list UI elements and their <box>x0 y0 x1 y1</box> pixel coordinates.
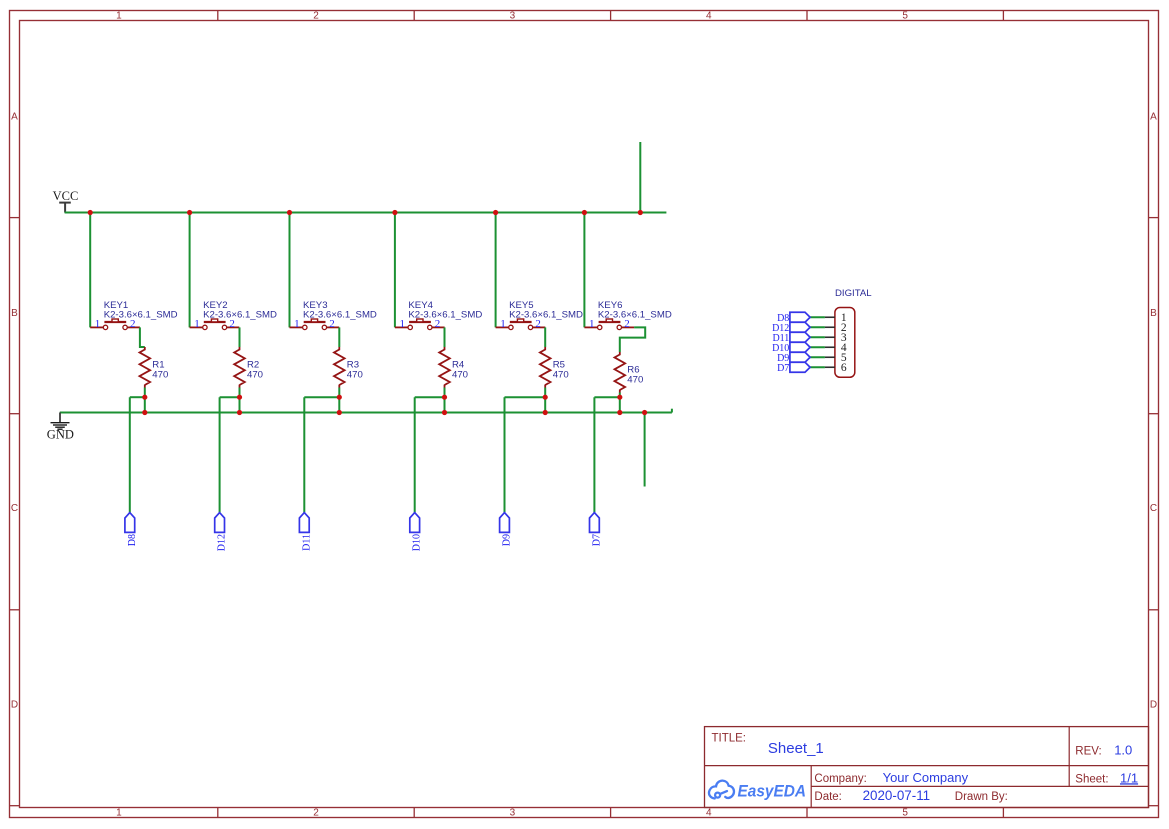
wire branch to flag D9 <box>505 396 546 398</box>
wire to connector pin 5 <box>810 356 825 358</box>
wire to connector pin 2 <box>810 326 825 328</box>
connector pin 1 stub <box>825 316 835 318</box>
wire R4 to GND rail <box>444 388 446 413</box>
connector DIGITAL body <box>835 308 855 378</box>
svg-text:DIGITAL: DIGITAL <box>835 288 872 299</box>
pushbutton KEY2 <box>190 319 240 330</box>
svg-text:C: C <box>1150 503 1157 514</box>
title block divider logo cell <box>810 766 812 808</box>
junction dot node D11 <box>337 395 342 400</box>
net flag D8 bottom <box>125 513 138 547</box>
svg-text:470: 470 <box>247 370 263 381</box>
wire VCC to KEY2 pin 1 <box>189 213 191 328</box>
net flag D10 right <box>772 342 810 354</box>
frame column tick bottom 5 <box>1002 808 1004 818</box>
svg-text:GND: GND <box>47 427 74 441</box>
frame column tick bottom 1 <box>217 808 219 818</box>
resistor R2 <box>234 347 245 388</box>
junction dot node D10 <box>442 395 447 400</box>
junction dot VCC rail col 5 <box>493 210 498 215</box>
net flag D9 right <box>777 352 810 364</box>
pushbutton KEY6 <box>584 319 634 330</box>
wire GND rail horizontal <box>60 412 672 414</box>
resistor R6 <box>615 352 626 393</box>
wire down to flag D11 <box>303 397 305 513</box>
VCC power symbol <box>59 203 71 213</box>
wire KEY1 pin2 down <box>140 327 145 347</box>
wire to connector pin 1 <box>810 316 825 318</box>
net flag D11 bottom <box>299 513 312 551</box>
svg-text:1: 1 <box>589 318 595 330</box>
pushbutton KEY3 <box>290 319 340 330</box>
junction dot node D8 <box>142 395 147 400</box>
svg-text:D12: D12 <box>217 534 228 551</box>
svg-text:TITLE:: TITLE: <box>712 733 747 745</box>
svg-text:K2-3.6×6.1_SMD: K2-3.6×6.1_SMD <box>598 310 672 321</box>
EasyEDA logo cloud <box>709 781 734 799</box>
wire R3 to GND rail <box>338 388 340 413</box>
svg-text:A: A <box>1150 111 1157 122</box>
connector pin 6 stub <box>825 366 835 368</box>
junction dot GND rail col 2 <box>237 410 242 415</box>
wire R2 to GND rail <box>239 388 241 413</box>
ground symbol GND <box>51 413 70 430</box>
svg-text:EasyEDA: EasyEDA <box>738 782 807 801</box>
svg-text:4: 4 <box>706 808 712 819</box>
svg-text:K2-3.6×6.1_SMD: K2-3.6×6.1_SMD <box>303 310 377 321</box>
wire down to flag D10 <box>414 397 416 513</box>
svg-text:K2-3.6×6.1_SMD: K2-3.6×6.1_SMD <box>509 310 583 321</box>
svg-text:D: D <box>11 700 18 711</box>
wire down to flag D12 <box>219 397 221 513</box>
svg-text:D: D <box>1150 700 1157 711</box>
net flag D10 bottom <box>410 513 423 552</box>
frame column tick bottom 3 <box>610 808 612 818</box>
svg-text:470: 470 <box>627 375 643 386</box>
svg-text:1: 1 <box>95 318 101 330</box>
svg-text:1: 1 <box>116 11 122 22</box>
svg-text:1: 1 <box>400 318 406 330</box>
wire VCC rail horizontal <box>65 212 667 214</box>
junction dot GND rail col 3 <box>337 410 342 415</box>
net flag D12 right <box>772 322 810 334</box>
junction dot GND rail col 6 <box>617 410 622 415</box>
svg-text:B: B <box>11 308 18 319</box>
frame column tick top 4 <box>806 11 808 21</box>
resistor R3 <box>334 347 345 388</box>
junction dot VCC rail col 1 <box>88 210 93 215</box>
wire branch to flag D8 <box>130 396 145 398</box>
svg-text:470: 470 <box>452 370 468 381</box>
frame column tick top 1 <box>217 11 219 21</box>
frame row tick right 2 <box>1149 413 1159 415</box>
svg-text:470: 470 <box>152 370 168 381</box>
title block divider rev/sheet <box>1068 727 1070 787</box>
svg-text:6: 6 <box>841 362 847 374</box>
wire branch to flag D12 <box>220 396 240 398</box>
svg-text:Sheet_1: Sheet_1 <box>768 740 824 757</box>
junction dot VCC rail col 2 <box>187 210 192 215</box>
svg-text:1: 1 <box>294 318 300 330</box>
frame column tick top 3 <box>610 11 612 21</box>
svg-text:VCC: VCC <box>53 189 79 203</box>
svg-text:2: 2 <box>313 11 319 22</box>
wire branch to flag D10 <box>415 396 445 398</box>
svg-text:D10: D10 <box>412 534 423 551</box>
frame row tick left 1 <box>10 217 20 219</box>
wire KEY6 pin2 detour <box>620 327 645 352</box>
frame column tick top 5 <box>1002 11 1004 21</box>
frame row tick left 2 <box>10 413 20 415</box>
svg-text:1/1: 1/1 <box>1120 770 1138 785</box>
junction dot VCC rail col 4 <box>392 210 397 215</box>
wire to connector pin 6 <box>810 366 825 368</box>
wire KEY2 pin2 down <box>239 327 241 347</box>
svg-text:C: C <box>11 503 18 514</box>
wire branch to flag D11 <box>304 396 339 398</box>
svg-text:D8: D8 <box>127 534 138 546</box>
svg-text:Drawn By:: Drawn By: <box>955 791 1008 803</box>
svg-text:1: 1 <box>116 808 122 819</box>
wire down to flag D7 <box>593 397 595 513</box>
wire KEY5 pin2 down <box>544 327 546 347</box>
wire KEY3 pin2 down <box>338 327 340 347</box>
frame row tick right 3 <box>1149 609 1159 611</box>
wire to connector pin 4 <box>810 346 825 348</box>
junction dot VCC rail col 3 <box>287 210 292 215</box>
wire VCC to KEY5 pin 1 <box>495 213 497 328</box>
frame row tick left 4 <box>10 805 20 807</box>
svg-text:D9: D9 <box>502 534 513 546</box>
svg-text:D11: D11 <box>301 534 312 551</box>
junction dot VCC rail right <box>638 210 643 215</box>
wire VCC to KEY4 pin 1 <box>394 213 396 328</box>
wire down to flag D8 <box>129 397 131 513</box>
junction dot GND rail col 5 <box>543 410 548 415</box>
net flag D12 bottom <box>215 513 228 552</box>
svg-text:Company:: Company: <box>814 773 866 785</box>
connector pin 5 stub <box>825 356 835 358</box>
frame column tick bottom 2 <box>413 808 415 818</box>
wire R1 to GND rail <box>144 388 146 413</box>
svg-text:5: 5 <box>902 808 908 819</box>
svg-text:2: 2 <box>313 808 319 819</box>
svg-text:1: 1 <box>500 318 506 330</box>
svg-text:K2-3.6×6.1_SMD: K2-3.6×6.1_SMD <box>408 310 482 321</box>
junction dot VCC rail col 6 <box>582 210 587 215</box>
junction dot GND rail col 4 <box>442 410 447 415</box>
frame column tick bottom 4 <box>806 808 808 818</box>
wire vertical stub above VCC rail <box>639 142 641 213</box>
pushbutton KEY1 <box>90 319 140 330</box>
connector pin 4 stub <box>825 346 835 348</box>
wire VCC to KEY3 pin 1 <box>289 213 291 328</box>
junction dot node D7 <box>617 395 622 400</box>
frame row tick right 1 <box>1149 217 1159 219</box>
svg-text:4: 4 <box>706 11 712 22</box>
pushbutton KEY5 <box>496 319 546 330</box>
net flag D7 right <box>777 362 810 374</box>
svg-text:Date:: Date: <box>814 791 842 803</box>
wire GND rail end stub <box>671 409 673 413</box>
wire VCC to KEY1 pin 1 <box>89 213 91 328</box>
pushbutton KEY4 <box>395 319 445 330</box>
svg-text:5: 5 <box>902 11 908 22</box>
net flag D11 right <box>772 332 810 344</box>
svg-text:D7: D7 <box>777 363 789 374</box>
wire R5 to GND rail <box>544 388 546 413</box>
svg-text:REV:: REV: <box>1075 746 1101 758</box>
svg-text:Your Company: Your Company <box>883 770 969 785</box>
svg-text:470: 470 <box>553 370 569 381</box>
resistor R1 <box>140 347 151 388</box>
svg-text:3: 3 <box>510 808 516 819</box>
net flag D9 bottom <box>500 513 513 547</box>
wire VCC to KEY6 pin 1 <box>583 213 585 328</box>
wire to connector pin 3 <box>810 336 825 338</box>
wire dangling below GND rail <box>644 413 646 487</box>
junction dot node D9 <box>543 395 548 400</box>
resistor R4 <box>439 347 450 388</box>
wire branch to flag D7 <box>594 396 619 398</box>
svg-text:K2-3.6×6.1_SMD: K2-3.6×6.1_SMD <box>104 310 178 321</box>
net flag D7 bottom <box>590 513 603 547</box>
svg-text:B: B <box>1150 308 1157 319</box>
svg-text:1: 1 <box>194 318 200 330</box>
junction dot GND rail col 1 <box>142 410 147 415</box>
svg-text:D7: D7 <box>591 534 602 546</box>
title block outline <box>705 727 1149 808</box>
connector pin 3 stub <box>825 336 835 338</box>
svg-text:Sheet:: Sheet: <box>1075 773 1108 785</box>
resistor R5 <box>540 347 551 388</box>
svg-text:3: 3 <box>510 11 516 22</box>
title block divider company/date <box>811 785 1148 787</box>
frame row tick right 4 <box>1149 805 1159 807</box>
wire KEY4 pin2 down <box>444 327 446 347</box>
svg-text:470: 470 <box>347 370 363 381</box>
svg-text:1.0: 1.0 <box>1114 743 1132 758</box>
title block divider title/company <box>705 765 1149 767</box>
svg-text:A: A <box>11 111 18 122</box>
frame column tick top 2 <box>413 11 415 21</box>
wire down to flag D9 <box>504 397 506 513</box>
svg-text:K2-3.6×6.1_SMD: K2-3.6×6.1_SMD <box>203 310 277 321</box>
wire R6 to GND rail <box>619 393 621 413</box>
connector pin 2 stub <box>825 326 835 328</box>
frame row tick left 3 <box>10 609 20 611</box>
junction dot GND rail right <box>642 410 647 415</box>
svg-text:2020-07-11: 2020-07-11 <box>863 788 931 803</box>
net flag D8 right <box>777 312 810 324</box>
junction dot node D12 <box>237 395 242 400</box>
